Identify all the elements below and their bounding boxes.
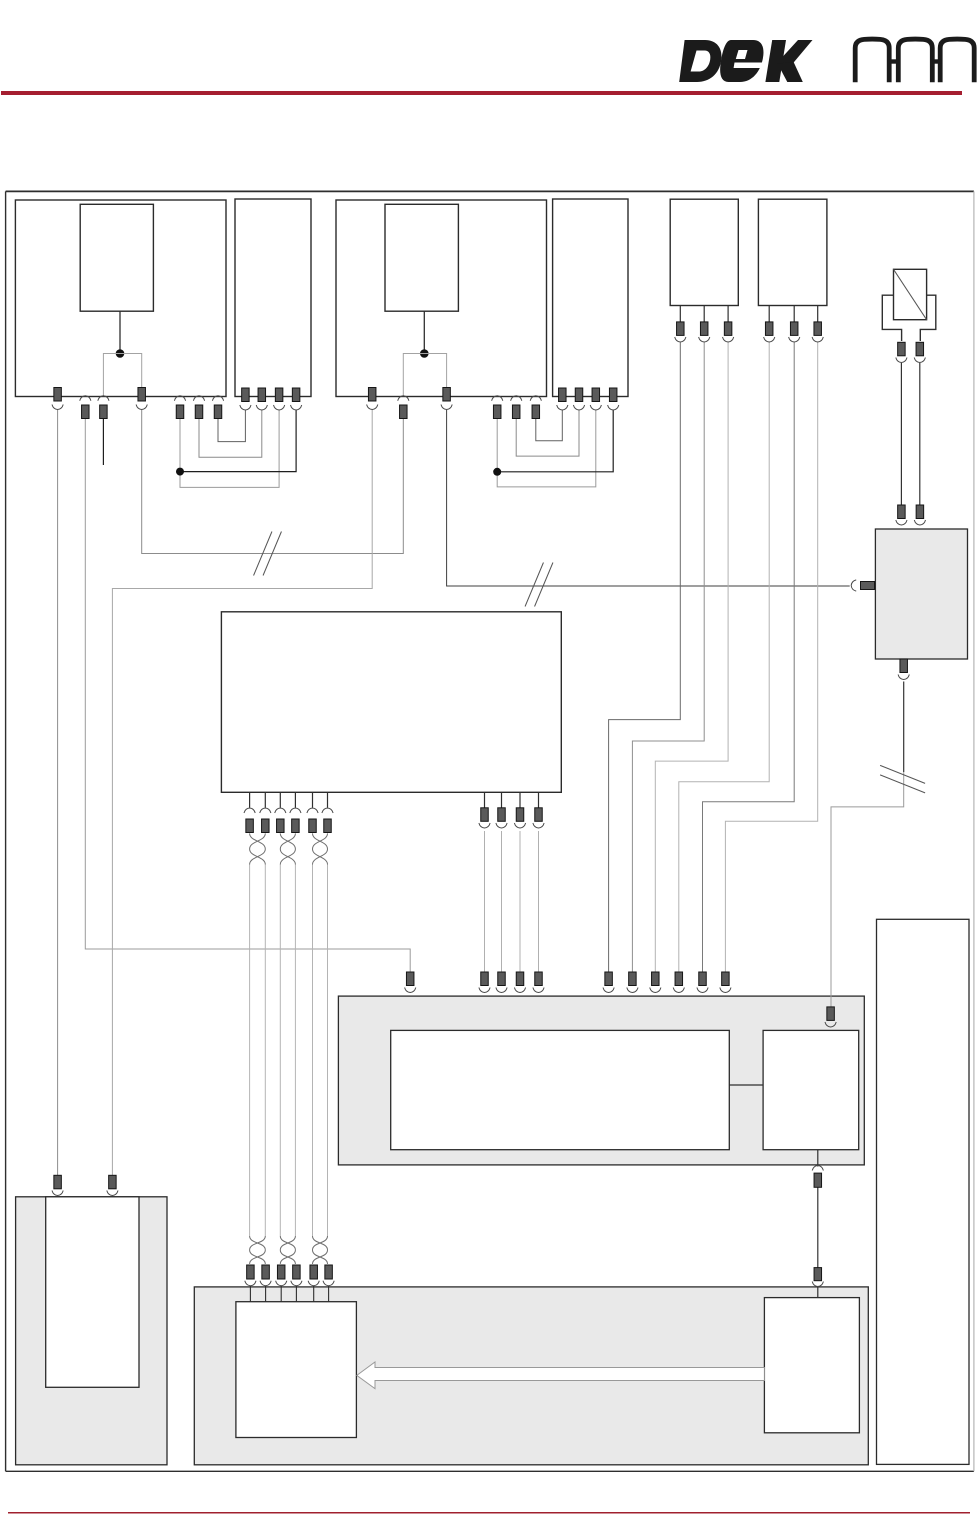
break marks on wire Y3 (525, 563, 543, 607)
connector D4 (538, 792, 540, 808)
bottom grey box (194, 1287, 868, 1465)
wire line A (142, 410, 404, 554)
wire U3 (180, 410, 279, 487)
connector E12 (827, 1007, 835, 1021)
connector H1 (812, 1166, 823, 1171)
connector B5-2 (700, 322, 708, 336)
transformer T1 yoke (882, 295, 901, 341)
block B3 (336, 200, 547, 397)
wire Y3 to PSU (447, 410, 850, 586)
wire J3 bracket (403, 354, 446, 396)
connector C4 (294, 792, 296, 807)
twisted pair P1 top twist (250, 833, 266, 864)
connector E3 (498, 972, 506, 986)
block B6 (758, 199, 827, 305)
wire PSU output grey (831, 772, 904, 1007)
node J3 (420, 349, 429, 358)
block B1 (15, 200, 226, 397)
connector E7 (629, 972, 637, 986)
wire R1 (484, 831, 486, 972)
connector T1-a (898, 342, 906, 356)
connector C5 (312, 792, 314, 807)
block B2 (235, 199, 311, 397)
twisted pair P3 top twist (313, 833, 328, 864)
wire line B (112, 410, 372, 1175)
connector C1 (249, 792, 251, 807)
wire U2 (199, 410, 262, 457)
connector G4 (293, 1265, 301, 1279)
tall right block (877, 919, 970, 1464)
wire S4 (679, 343, 769, 973)
break marks on PSU output (880, 765, 925, 783)
central interface box (221, 612, 561, 793)
wire T1 left lead (900, 363, 902, 505)
wire bottom box entry stub (817, 1287, 819, 1298)
connector B4-4 (609, 388, 617, 402)
wire U1 (218, 410, 245, 442)
connector B4-2 (575, 388, 583, 402)
twisted pair P2 bottom twist (280, 1236, 295, 1264)
wire U7 (497, 410, 596, 487)
connector E10 (699, 972, 707, 986)
connector Y1 (368, 388, 376, 402)
wire B3a stub (423, 311, 425, 353)
wire U5 (536, 410, 563, 441)
connector Y5 (511, 396, 522, 401)
twisted pair P1 bottom twist (250, 1236, 266, 1264)
connector F1 (54, 1175, 62, 1189)
connector Y6 (530, 396, 541, 401)
wire U4 (black branch) (180, 410, 296, 472)
wire R4 (538, 831, 540, 972)
connector H2 (814, 1268, 822, 1281)
wire X1 to bottom-left box (57, 410, 59, 1175)
connector B4-3 (592, 388, 600, 402)
connector PSU-out (900, 659, 908, 673)
connector B5-3 (724, 322, 732, 336)
connector X1 (54, 388, 62, 402)
connector X2 (80, 396, 91, 401)
twisted pair P1 run (249, 865, 251, 1237)
block B4 (553, 199, 628, 397)
footer red rule (8, 1512, 970, 1514)
PSU unit grey box (875, 529, 967, 659)
wire U8 (black branch) (497, 410, 613, 472)
connector E4 (516, 972, 524, 986)
control unit board 1 (391, 1030, 730, 1149)
connector G1 (247, 1265, 255, 1279)
twisted pair P3 bottom twist (313, 1236, 328, 1264)
wire S3 (655, 343, 728, 973)
header arches logo (855, 39, 889, 82)
bottom-left inner block (46, 1197, 139, 1388)
connector B6-1 (765, 322, 773, 336)
wire board link (729, 1084, 763, 1086)
wire B5 pin stubs (679, 306, 681, 322)
wire J1 bracket (103, 354, 141, 396)
connector E1 (406, 972, 414, 986)
connector E2 (481, 972, 489, 986)
wire T1 right lead (919, 363, 921, 505)
wire S6 (725, 343, 817, 973)
connector G3 (277, 1265, 285, 1279)
connector B2-3 (275, 388, 283, 402)
bottom-left grey box (16, 1197, 167, 1465)
wire S2 (632, 343, 704, 973)
connector PSU-left (861, 582, 875, 590)
connector T1-b (916, 342, 924, 356)
node J2 (176, 468, 184, 476)
connector B6-2 (790, 322, 798, 336)
wire board2 stub (817, 1150, 819, 1167)
connector Y2 (398, 396, 409, 401)
inner block B3a (385, 204, 458, 311)
wire S5 (703, 343, 795, 973)
connector C6 (327, 792, 329, 807)
connector PSU-in-b (916, 505, 924, 519)
twisted pair P2 run (279, 865, 281, 1237)
connector B2-2 (258, 388, 266, 402)
connector B4-1 (559, 388, 567, 402)
break marks on line A (254, 532, 272, 576)
node J4 (493, 468, 501, 476)
bottom inner block right (764, 1298, 859, 1433)
control unit grey box (338, 996, 864, 1165)
wire B6 pin stubs (768, 306, 770, 322)
connector B6-3 (814, 322, 822, 336)
wire X3 stub (102, 419, 104, 466)
control unit board 2 (763, 1030, 859, 1149)
connector G2 (262, 1265, 270, 1279)
wire board2 to bottom box (817, 1187, 819, 1267)
wire U6 (516, 410, 579, 456)
connector D2 (501, 792, 503, 808)
block B5 (670, 199, 738, 305)
transformer T1 box (894, 269, 927, 319)
node J1 (116, 349, 125, 358)
wire S1 (609, 343, 681, 973)
connector B2-1 (242, 388, 250, 402)
wire PSU output dark (903, 682, 905, 773)
inner block B1a (80, 204, 153, 311)
connector Y3 (443, 388, 451, 402)
connector G5 (310, 1265, 318, 1279)
connector G6 (325, 1265, 333, 1279)
connector X4 (138, 388, 146, 402)
connector B2-4 (292, 388, 300, 402)
connector E11 (722, 972, 730, 986)
connector PSU-in-a (898, 505, 906, 519)
twisted pair P2 top twist (280, 833, 295, 864)
connector X3 (98, 396, 109, 401)
connector D3 (519, 792, 521, 808)
connector E8 (652, 972, 660, 986)
header DEK logotype (679, 40, 721, 82)
connector F2 (109, 1175, 117, 1189)
connector E6 (605, 972, 613, 986)
twisted pair P3 run (312, 865, 314, 1237)
connector D1 (484, 792, 486, 808)
connector B5-1 (677, 322, 685, 336)
connector X7 (212, 396, 223, 401)
wire R2 (501, 831, 503, 972)
connector E9 (675, 972, 683, 986)
connector Y4 (492, 396, 503, 401)
wire B1a stub (119, 311, 121, 353)
bottom inner block left (236, 1302, 357, 1438)
data arrow (357, 1362, 765, 1389)
wire X2 to control box (85, 419, 410, 973)
connector X5 (174, 396, 185, 401)
header red rule (1, 91, 962, 95)
connector C2 (264, 792, 266, 807)
wire R3 (519, 831, 521, 972)
connector X6 (193, 396, 204, 401)
connector E5 (535, 972, 543, 986)
connector C3 (279, 792, 281, 807)
